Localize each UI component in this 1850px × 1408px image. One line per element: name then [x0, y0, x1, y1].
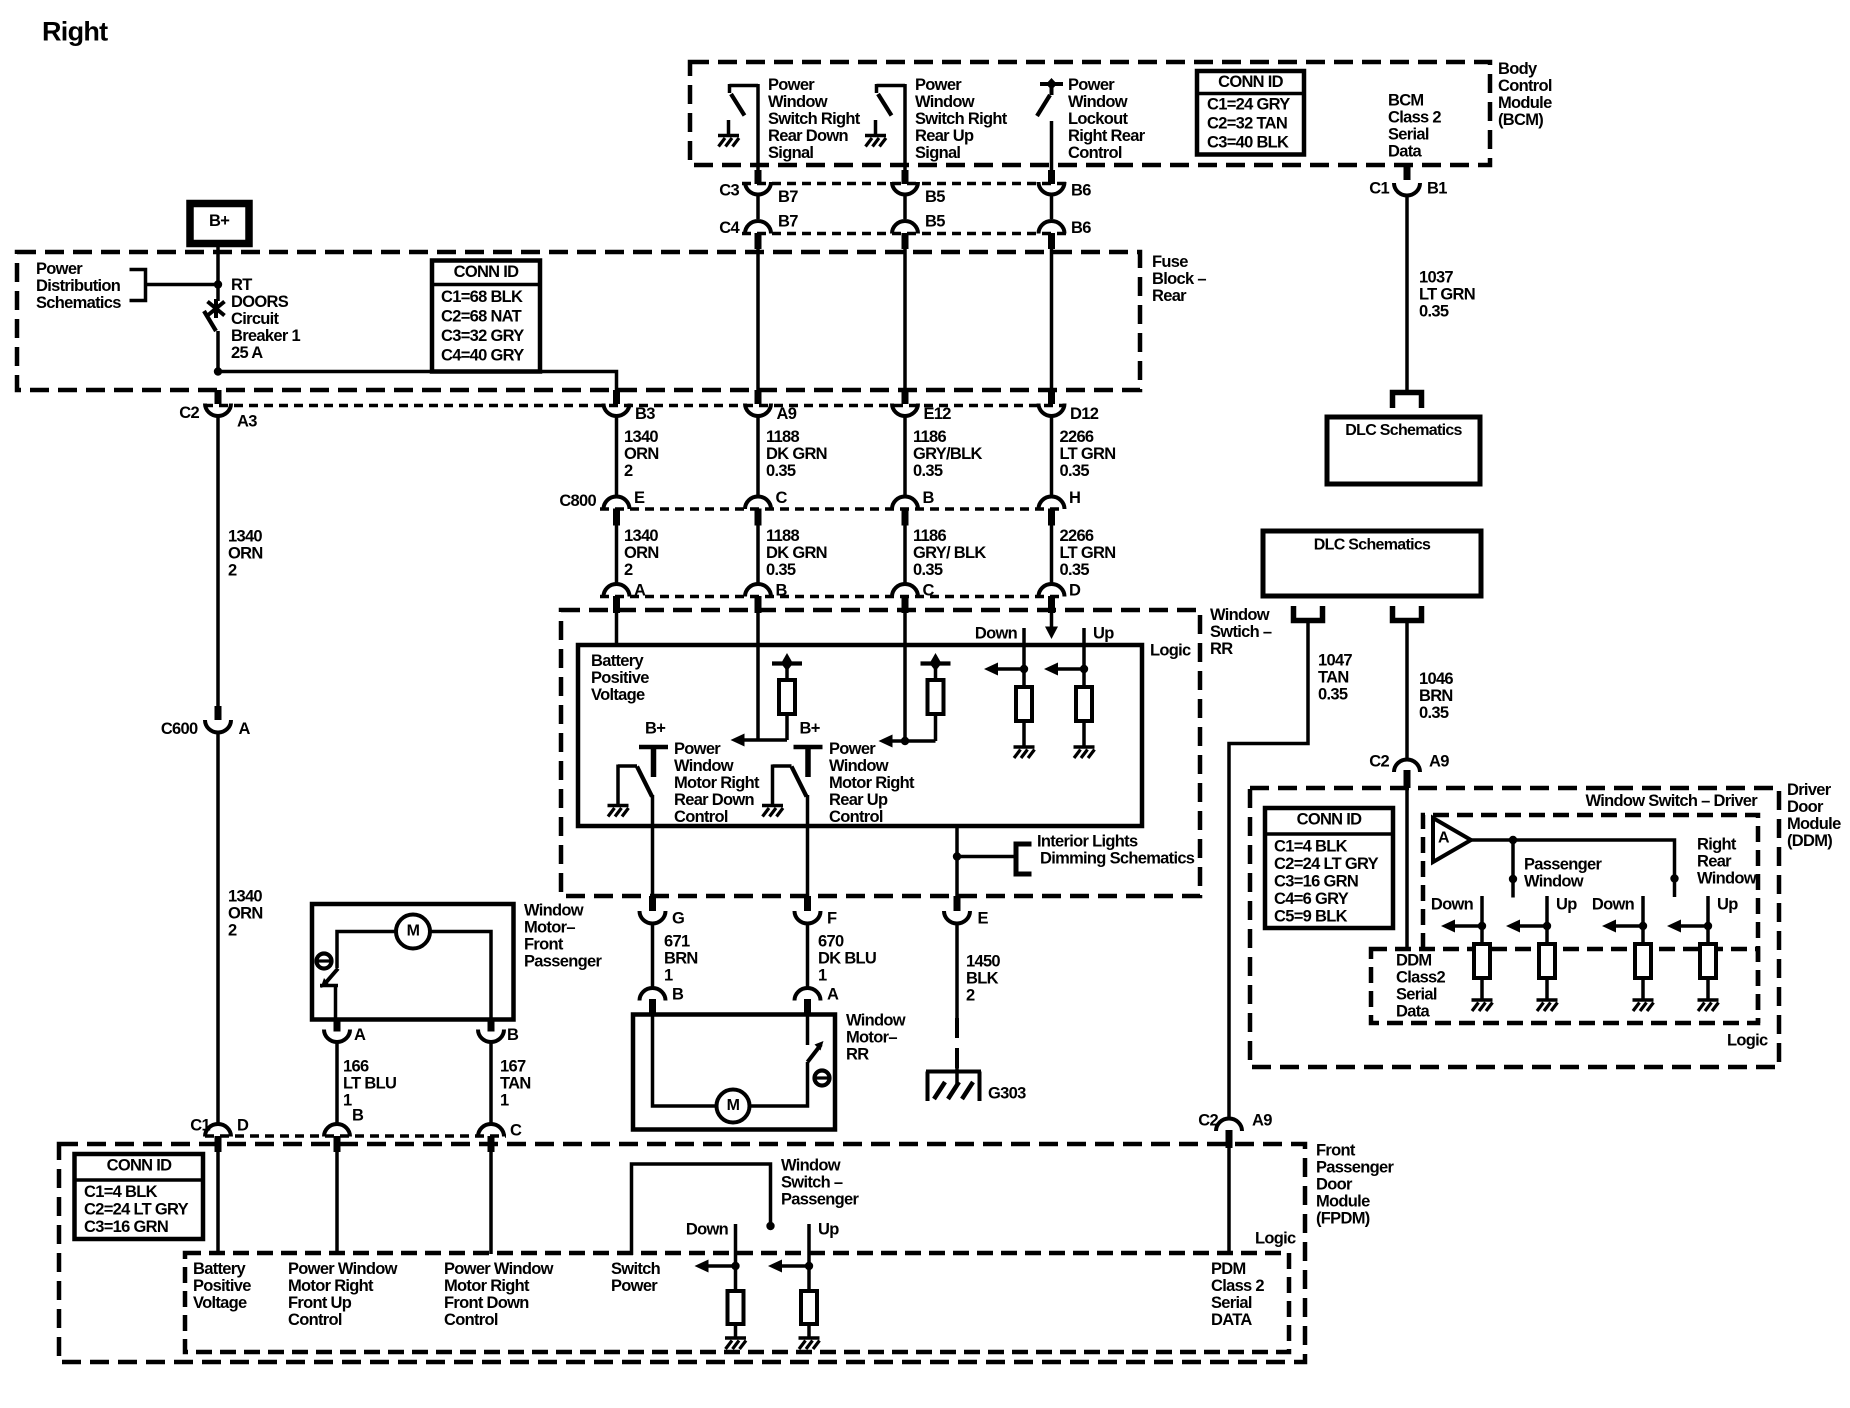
svg-text:Rear Up: Rear Up [829, 791, 888, 809]
svg-text:Serial: Serial [1396, 986, 1437, 1004]
wire motor RR left lead [653, 1013, 718, 1106]
label Switch Power [611, 1260, 661, 1295]
svg-text:Battery: Battery [591, 652, 644, 670]
wire 1037 LT GRN 0.35 [1407, 196, 1475, 391]
label Battery Positive Voltage (logic) [591, 652, 649, 704]
svg-text:(DDM): (DDM) [1787, 832, 1832, 850]
logic dashed box (DDM) [1371, 949, 1758, 1023]
svg-text:2266: 2266 [1060, 527, 1094, 545]
svg-text:PDM: PDM [1211, 1260, 1246, 1278]
svg-text:Control: Control [829, 808, 883, 826]
label Down (FPDM) [686, 1221, 729, 1239]
module box BCM (Body Control Module) dashed outline [690, 62, 1490, 165]
node junction Down sense [996, 665, 1028, 673]
svg-text:D12: D12 [1070, 405, 1099, 423]
svg-text:C4: C4 [719, 219, 740, 237]
svg-text:A: A [239, 720, 251, 738]
wire B6 from C4 into Fuse Block [1050, 249, 1054, 404]
connector C3 pin B7 [745, 170, 771, 195]
label Window Swtich - RR [1210, 606, 1272, 658]
connector C2 pin A3 [179, 390, 257, 431]
svg-text:Class 2: Class 2 [1211, 1277, 1264, 1295]
wire D with down arrow [1045, 613, 1058, 639]
svg-text:BRN: BRN [1419, 687, 1453, 705]
svg-text:Door: Door [1316, 1176, 1353, 1194]
svg-text:Battery: Battery [193, 1260, 246, 1278]
wire switch common (DDM) [1471, 840, 1675, 897]
resistor Down (FPDM) [728, 1291, 744, 1338]
svg-text:C: C [923, 582, 935, 600]
svg-text:Rear: Rear [1697, 853, 1732, 871]
svg-text:Switch –: Switch – [781, 1174, 843, 1192]
svg-text:Power: Power [768, 76, 815, 94]
ground Down (DDM col 1643) [1633, 1000, 1654, 1011]
svg-text:A3: A3 [237, 413, 257, 431]
svg-text:Motor–: Motor– [846, 1029, 897, 1047]
off-page terminal (1046 BRN) [1393, 606, 1422, 621]
resistor pull-up (rear down) [772, 653, 802, 740]
svg-text:0.35: 0.35 [1318, 686, 1348, 704]
connector pin G [640, 896, 685, 928]
svg-text:Serial: Serial [1211, 1294, 1252, 1312]
label Battery Positive Voltage (FPDM) [193, 1260, 251, 1312]
label B (C800) [923, 489, 935, 507]
label Up (DDM col 1708) [1717, 896, 1738, 914]
svg-text:RR: RR [846, 1046, 869, 1064]
wire PDM serial data [1227, 1146, 1231, 1254]
connector pin B (motor RR) [640, 986, 685, 1014]
wire from Power Distribution Schematics [146, 283, 219, 287]
arrow Down (DDM col 1482) [1441, 920, 1455, 933]
label BCM Class 2 Serial Data [1388, 92, 1441, 161]
label D (switch conn) [1069, 582, 1081, 600]
node junction Down (FPDM) [707, 1262, 740, 1270]
svg-text:Window: Window [1210, 606, 1270, 624]
node junction passenger window [1509, 836, 1517, 898]
svg-text:DATA: DATA [1211, 1311, 1252, 1329]
arrow Down (DDM col 1643) [1602, 920, 1616, 933]
wire switch power feed (window switch passenger) [632, 1164, 771, 1255]
label E12 [924, 405, 952, 423]
svg-text:Switch Right: Switch Right [915, 110, 1008, 128]
label Logic (FPDM) [1255, 1230, 1296, 1248]
svg-text:B: B [352, 1107, 364, 1125]
svg-text:A: A [634, 582, 646, 600]
svg-text:2: 2 [228, 562, 237, 580]
wire B7 between C3 and C4 [756, 195, 760, 219]
terminal B+ (rear down driver) [639, 720, 668, 778]
svg-text:G: G [672, 910, 684, 928]
svg-text:C2=32 TAN: C2=32 TAN [1207, 115, 1287, 133]
label Down (logic RR) [975, 625, 1018, 643]
module box Front Passenger Door Module (FPDM) dashed outline [59, 1144, 1305, 1362]
svg-text:B+: B+ [209, 212, 229, 230]
label E (C800) [634, 489, 645, 507]
connector pin E [944, 896, 989, 928]
connector window switch RR pin C [892, 584, 918, 613]
node junction wire C / pull-up [892, 737, 936, 745]
wire 1340 ORN 2 (lower) [218, 733, 263, 1125]
arrow rear-up drive [879, 735, 893, 748]
svg-text:A9: A9 [777, 405, 797, 423]
svg-text:C1=4 BLK: C1=4 BLK [84, 1183, 158, 1201]
arrow Up (DDM col 1708) [1667, 920, 1681, 933]
svg-text:Control: Control [1068, 144, 1122, 162]
connector C4 pin B6 [1039, 221, 1065, 249]
svg-text:Module: Module [1787, 815, 1841, 833]
arrow Down (FPDM) [695, 1260, 709, 1273]
svg-text:1188: 1188 [766, 428, 800, 446]
title Right [42, 17, 108, 47]
svg-text:Right: Right [42, 17, 108, 47]
svg-text:1450: 1450 [966, 953, 1000, 971]
motor M (window motor RR) [717, 1090, 750, 1123]
ground (rear up driver) [762, 806, 783, 817]
svg-text:671: 671 [664, 933, 690, 951]
connector window switch RR pin A [604, 584, 630, 613]
svg-text:1: 1 [664, 967, 673, 985]
svg-text:B: B [923, 489, 935, 507]
svg-text:C: C [776, 489, 788, 507]
connector row line window-switch RR (dotted) [600, 595, 1065, 599]
arrow Up (DDM col 1547) [1506, 920, 1520, 933]
label A (switch conn) [634, 582, 646, 600]
svg-text:Control: Control [444, 1311, 498, 1329]
svg-text:A: A [827, 986, 839, 1004]
label Power Window Switch Right Rear Down Signal [768, 76, 861, 162]
label Driver Door Module (DDM) [1787, 781, 1841, 850]
connector C1 pin C (FPDM) [478, 1122, 522, 1153]
node junction right rear window [1670, 874, 1678, 882]
svg-text:LT GRN: LT GRN [1419, 286, 1475, 304]
ground G303 [926, 1068, 981, 1101]
connector pin A (motor FP) [324, 1020, 366, 1045]
logic box (window switch RR) [578, 645, 1142, 826]
svg-text:Motor Right: Motor Right [829, 774, 915, 792]
svg-text:(BCM): (BCM) [1498, 111, 1543, 129]
svg-text:C3=16 GRN: C3=16 GRN [1274, 873, 1358, 891]
wire to rear-down drive arrow [731, 734, 788, 747]
node junction breaker output [214, 367, 222, 375]
connector C2 pin A9 (FPDM serial) [1198, 1112, 1272, 1149]
connector C800 pin E [604, 496, 630, 525]
svg-text:Dimming Schematics: Dimming Schematics [1040, 850, 1195, 868]
wire Down sense [1022, 628, 1026, 687]
ground (rear down driver) [608, 806, 629, 817]
window switch driver dashed box [1423, 815, 1758, 1023]
off-page terminal (1047 TAN) [1294, 606, 1323, 621]
svg-text:166: 166 [343, 1058, 369, 1076]
label G303 [988, 1085, 1026, 1103]
svg-text:B+: B+ [800, 720, 820, 738]
svg-text:Door: Door [1787, 798, 1824, 816]
wire 1186 GRY/ BLK 0.35 (door side) [905, 525, 986, 586]
svg-text:Rear Down: Rear Down [674, 791, 755, 809]
svg-text:Motor Right: Motor Right [288, 1277, 374, 1295]
svg-text:A: A [1438, 830, 1450, 847]
svg-text:C2=24 LT GRY: C2=24 LT GRY [84, 1201, 189, 1219]
connector C800 pin H [1039, 496, 1065, 525]
label H (C800) [1069, 489, 1080, 507]
wire 1340 ORN 2 [617, 417, 659, 498]
label C (C800) [776, 489, 788, 507]
svg-text:DDM: DDM [1396, 952, 1431, 970]
connector C3 pin B5 [892, 170, 918, 195]
label Logic (DDM) [1727, 1032, 1768, 1050]
connector ID table CONN ID (BCM) [1197, 71, 1304, 155]
svg-text:DK GRN: DK GRN [766, 544, 827, 562]
svg-text:Power: Power [829, 740, 876, 758]
wire motor rear-up output [806, 826, 810, 896]
connector C800-row pin D12 [1039, 390, 1065, 416]
svg-text:1: 1 [343, 1092, 352, 1110]
wire DDM class 2 serial data [1405, 786, 1409, 949]
svg-text:1046: 1046 [1419, 670, 1453, 688]
wire 1046 BRN 0.35 [1407, 621, 1453, 758]
svg-text:B7: B7 [778, 188, 798, 206]
thermal protector symbol (motor RR) [815, 1071, 830, 1086]
svg-text:0.35: 0.35 [1060, 462, 1090, 480]
node junction Down (DDM col 1643) [1614, 922, 1647, 930]
svg-text:0.35: 0.35 [1419, 303, 1449, 321]
connector row line C4 (dotted) [742, 232, 1067, 236]
svg-text:Logic: Logic [1727, 1032, 1768, 1050]
svg-text:B5: B5 [925, 213, 945, 231]
svg-text:C2=24 LT GRY: C2=24 LT GRY [1274, 855, 1379, 873]
wire motor rear-down output [651, 826, 655, 896]
svg-text:C1=24 GRY: C1=24 GRY [1207, 96, 1290, 114]
connector pin B (motor FP) [478, 1020, 519, 1045]
svg-text:ORN: ORN [228, 545, 263, 563]
svg-text:1188: 1188 [766, 527, 800, 545]
arrow Up sense [1044, 663, 1058, 676]
connector C1 pin B1 (BCM serial data) [1369, 165, 1447, 198]
svg-text:Passenger: Passenger [781, 1191, 859, 1209]
svg-text:CONN ID: CONN ID [1297, 811, 1363, 829]
svg-text:H: H [1069, 489, 1080, 507]
wire C into logic box [903, 613, 907, 741]
svg-text:A9: A9 [1429, 753, 1449, 771]
svg-text:C600: C600 [161, 720, 198, 738]
wire 2266 LT GRN 0.35 (door side) [1052, 525, 1116, 586]
resistor Down (DDM col 1643) [1635, 944, 1651, 1000]
connector C800-row pin E12 [892, 390, 918, 416]
connector C1 pin B (FPDM) [324, 1107, 364, 1153]
svg-text:2: 2 [966, 987, 975, 1005]
svg-text:TAN: TAN [500, 1075, 531, 1093]
svg-text:M: M [407, 923, 420, 940]
svg-text:A: A [354, 1026, 366, 1044]
wire Down sense (FPDM) [734, 1224, 738, 1291]
wire front down control into FPDM [489, 1150, 493, 1254]
switch thermal contact (motor RR) [808, 1014, 824, 1062]
svg-text:Power: Power [1068, 76, 1115, 94]
wire breaker output to B3 column [218, 372, 617, 393]
svg-text:Window: Window [1524, 873, 1584, 891]
wire motor RR right lead [750, 1062, 808, 1106]
svg-text:Interior Lights: Interior Lights [1037, 833, 1138, 851]
node switch wiper (window switch passenger) [766, 1222, 774, 1230]
svg-text:1: 1 [818, 967, 827, 985]
motor box Window Motor - RR [633, 1015, 835, 1130]
svg-text:C1=68 BLK: C1=68 BLK [441, 288, 523, 306]
svg-text:25 A: 25 A [231, 344, 263, 362]
terminal B+ (rear up driver) [794, 720, 823, 778]
svg-text:Positive: Positive [193, 1277, 251, 1295]
svg-text:DK GRN: DK GRN [766, 445, 827, 463]
module box Window Swtich - RR dashed outline [561, 610, 1200, 896]
svg-text:Control: Control [288, 1311, 342, 1329]
label Power Window Motor Right Front Up Control [288, 1260, 398, 1329]
logic dashed box (FPDM) [185, 1253, 1289, 1352]
svg-text:Window: Window [674, 757, 734, 775]
svg-text:1186: 1186 [913, 527, 947, 545]
svg-text:1340: 1340 [228, 888, 262, 906]
svg-text:A9: A9 [1252, 1112, 1272, 1130]
svg-text:B: B [672, 986, 684, 1004]
module box Fuse Block - Rear dashed outline [17, 252, 1140, 390]
label Power Distribution Schematics with bracket [36, 260, 146, 312]
wire Up sense (DDM col 1708) [1706, 896, 1710, 944]
wire 2266 LT GRN 0.35 [1052, 417, 1116, 498]
svg-text:Driver: Driver [1787, 781, 1832, 799]
svg-text:Module: Module [1498, 94, 1552, 112]
resistor Down sense [1016, 687, 1032, 747]
resistor Up (DDM col 1708) [1700, 944, 1716, 1000]
svg-text:C: C [510, 1122, 522, 1140]
node junction Up (DDM col 1708) [1679, 922, 1712, 930]
svg-text:ORN: ORN [624, 544, 659, 562]
connector row line C800 (dotted) [600, 507, 1065, 511]
svg-text:Window: Window [915, 93, 975, 111]
label Fuse Block - Rear [1152, 253, 1206, 305]
wire 166 LT BLU 1 [337, 1042, 396, 1125]
label Power Window Motor Right Rear Down Control [674, 740, 760, 826]
svg-text:Rear Down: Rear Down [768, 127, 849, 145]
wire 1450 BLK 2 dashed to ground [955, 1018, 959, 1071]
svg-text:RT: RT [231, 276, 252, 294]
resistor Up sense [1076, 687, 1092, 747]
wire Up sense (DDM col 1547) [1545, 896, 1549, 944]
svg-text:DLC Schematics: DLC Schematics [1345, 422, 1462, 439]
motor box Window Motor - Front Passenger [312, 904, 514, 1020]
connector ID table CONN ID (Fuse Block) [432, 261, 540, 372]
svg-text:B3: B3 [635, 405, 655, 423]
wire B7 from C4 into Fuse Block [756, 249, 760, 404]
connector row line C3 (dotted) [742, 182, 1067, 186]
switch: Power Window Lockout Right Rear Control [1037, 78, 1063, 170]
connector ID table CONN ID (FPDM) [75, 1154, 204, 1239]
svg-text:Window: Window [781, 1157, 841, 1175]
label Power Window Motor Right Front Down Control [444, 1260, 554, 1329]
thermal protector symbol (motor FP) [317, 954, 332, 969]
svg-text:ORN: ORN [228, 905, 263, 923]
svg-text:B: B [507, 1026, 519, 1044]
svg-text:0.35: 0.35 [1419, 704, 1449, 722]
connector row line C1 FPDM (dotted) [205, 1134, 506, 1138]
label Power Window Motor Right Rear Up Control [829, 740, 915, 826]
wire B5 from C4 into Fuse Block [903, 249, 907, 404]
switch contact (rear down driver) [618, 765, 653, 829]
svg-text:B5: B5 [925, 188, 945, 206]
ground Down sense [1014, 747, 1035, 758]
svg-text:Power Window: Power Window [288, 1260, 398, 1278]
label B5 (C3 row) [925, 188, 945, 206]
wire Up sense (FPDM) [807, 1224, 811, 1291]
wire dimming output [955, 826, 959, 896]
svg-text:Class 2: Class 2 [1388, 109, 1441, 127]
label Power Window Switch Right Rear Up Signal [915, 76, 1008, 162]
svg-text:Window: Window [829, 757, 889, 775]
connector C2 pin A9 (into DDM) [1369, 753, 1449, 789]
svg-text:Control: Control [1498, 77, 1552, 95]
svg-text:DLC Schematics: DLC Schematics [1314, 537, 1431, 554]
wire 1450 BLK 2 [957, 924, 1000, 1018]
svg-text:Up: Up [1717, 896, 1738, 914]
svg-text:Voltage: Voltage [591, 686, 645, 704]
svg-text:C4=6 GRY: C4=6 GRY [1274, 890, 1349, 908]
connector window switch RR pin D [1039, 584, 1065, 613]
svg-text:DOORS: DOORS [231, 293, 289, 311]
svg-text:Schematics: Schematics [36, 294, 121, 312]
wire 1188 DK GRN 0.35 [758, 417, 827, 498]
label Body Control Module (BCM) [1498, 60, 1552, 129]
label Passenger Window [1524, 856, 1602, 891]
wire Down sense (DDM col 1643) [1641, 896, 1645, 944]
svg-text:D: D [237, 1117, 249, 1135]
svg-text:Window: Window [768, 93, 828, 111]
wire Down sense (DDM col 1482) [1480, 896, 1484, 944]
ground Up (DDM col 1708) [1698, 1000, 1719, 1011]
label D12 [1070, 405, 1099, 423]
svg-text:Window: Window [1068, 93, 1128, 111]
switch: Power Window Switch Right Rear Up Signal [865, 84, 905, 170]
svg-text:2: 2 [624, 462, 633, 480]
svg-text:Passenger: Passenger [1316, 1159, 1394, 1177]
svg-text:Circuit: Circuit [231, 310, 280, 328]
svg-text:C2: C2 [179, 404, 199, 422]
svg-text:1186: 1186 [913, 428, 947, 446]
svg-text:BRN: BRN [664, 950, 698, 968]
svg-text:GRY/ BLK: GRY/ BLK [913, 544, 986, 562]
connector pin A (motor RR) [795, 986, 840, 1014]
svg-text:Swtich –: Swtich – [1210, 623, 1272, 641]
svg-text:C3=40 BLK: C3=40 BLK [1207, 134, 1289, 152]
switch thermal contact (motor FP) [320, 969, 338, 1022]
wire 671 BRN 1 [653, 924, 698, 988]
svg-text:Data: Data [1388, 143, 1422, 161]
label Front Passenger Door Module (FPDM) [1316, 1142, 1394, 1228]
svg-text:167: 167 [500, 1058, 526, 1076]
label B6 (C3 row) [1071, 182, 1091, 200]
svg-text:670: 670 [818, 933, 844, 951]
svg-text:BLK: BLK [966, 970, 999, 988]
svg-text:C3=32 GRY: C3=32 GRY [441, 327, 524, 345]
svg-text:1: 1 [500, 1092, 509, 1110]
label Interior Lights Dimming Schematics [1037, 833, 1195, 868]
svg-text:1340: 1340 [228, 528, 262, 546]
svg-text:Breaker 1: Breaker 1 [231, 327, 300, 345]
svg-text:BCM: BCM [1388, 92, 1423, 110]
label DDM Class2 Serial Data [1396, 952, 1446, 1021]
svg-text:C5=9 BLK: C5=9 BLK [1274, 908, 1348, 926]
circuit breaker RT DOORS Circuit Breaker 1 25 A [204, 299, 225, 331]
svg-text:2: 2 [228, 922, 237, 940]
label B3 [635, 405, 655, 423]
resistor Down (DDM col 1482) [1474, 944, 1490, 1000]
svg-text:Logic: Logic [1255, 1230, 1296, 1248]
svg-text:LT GRN: LT GRN [1060, 544, 1116, 562]
